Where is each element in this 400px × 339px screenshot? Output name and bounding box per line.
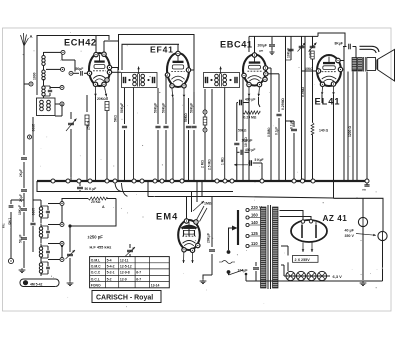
junction	[170, 179, 174, 183]
node 4	[50, 102, 64, 106]
svg-text:140: 140	[251, 220, 259, 225]
wire	[62, 54, 75, 71]
pin	[190, 248, 194, 252]
svg-text:110: 110	[251, 241, 258, 246]
svg-text:2000: 2000	[31, 124, 35, 132]
wire	[211, 89, 213, 181]
trimmer	[66, 248, 76, 281]
speaker	[367, 50, 395, 82]
pin	[264, 72, 268, 76]
capacitor 2KpF	[19, 190, 27, 205]
label 6.3V	[333, 274, 343, 279]
capacitor 20KpF	[203, 197, 215, 280]
svg-text:EM4: EM4	[156, 212, 179, 222]
svg-text:1000: 1000	[31, 208, 35, 216]
capacitor 10KpF	[234, 103, 252, 182]
trimmer	[126, 244, 136, 258]
svg-text:O.C.L: O.C.L	[91, 277, 100, 281]
resistor 20Kohm	[88, 197, 116, 204]
junction	[180, 179, 184, 183]
tube EL41	[317, 55, 341, 86]
coil L1	[42, 52, 45, 70]
svg-text:5-4-2: 5-4-2	[107, 265, 115, 269]
resistor 50Kohm	[184, 98, 191, 181]
wire diagonal	[197, 206, 208, 222]
contact 1	[48, 202, 64, 206]
pin	[94, 36, 98, 57]
svg-text:EL41: EL41	[315, 97, 341, 107]
svg-text:ECH42: ECH42	[64, 38, 97, 48]
wire	[352, 72, 354, 182]
lamp 4	[317, 271, 326, 280]
tap 110	[246, 241, 261, 247]
wire	[191, 70, 194, 92]
capacitor	[235, 77, 237, 83]
coil	[223, 74, 232, 86]
wire	[318, 33, 345, 47]
transformer primary	[261, 207, 267, 288]
coil S1	[39, 204, 50, 220]
svg-text:H.F 455 kHz: H.F 455 kHz	[90, 244, 112, 249]
svg-text:8KµF: 8KµF	[335, 42, 343, 46]
wire	[37, 36, 109, 96]
svg-text:2 MΩ: 2 MΩ	[201, 160, 205, 168]
svg-text:2.5 MΩ: 2.5 MΩ	[207, 159, 211, 170]
label EF41	[150, 45, 174, 55]
pin	[182, 248, 186, 252]
svg-text:10KµF: 10KµF	[18, 205, 22, 215]
svg-text:12-5-12: 12-5-12	[120, 265, 132, 269]
dial lamp unit	[20, 279, 59, 287]
node ant	[24, 72, 37, 86]
resistor 250ohm	[85, 95, 91, 181]
svg-text:4M 5-42: 4M 5-42	[30, 282, 43, 286]
variable capacitor	[66, 112, 77, 181]
label ECH42	[64, 38, 97, 48]
svg-text:2KµF: 2KµF	[19, 169, 23, 177]
svg-text:50KΩ: 50KΩ	[184, 113, 188, 122]
pin	[305, 67, 321, 73]
pin	[107, 70, 111, 74]
wire top rect	[119, 35, 195, 71]
junction	[77, 179, 81, 183]
capacitor 0.1uF	[286, 120, 298, 181]
capacitor 40uF 350V	[345, 229, 388, 241]
switch	[227, 270, 248, 281]
svg-text:6,3 V: 6,3 V	[333, 274, 343, 279]
pin	[263, 77, 267, 81]
wire	[61, 245, 63, 258]
wire bus3	[62, 199, 88, 207]
resistor 10Mohm	[244, 68, 271, 181]
wire	[55, 104, 62, 116]
diode chain	[201, 89, 212, 181]
pin	[107, 65, 111, 69]
svg-text:0.6MΩ: 0.6MΩ	[308, 48, 312, 58]
label 2x255	[293, 256, 319, 263]
ground	[19, 268, 26, 273]
fuse	[358, 198, 367, 227]
wire	[23, 205, 25, 207]
tube AZ41	[291, 220, 327, 242]
junction	[105, 179, 109, 183]
ground	[360, 281, 367, 286]
wire	[356, 72, 358, 182]
junction	[66, 179, 70, 183]
pin	[336, 58, 340, 62]
wire	[112, 68, 118, 93]
junction	[215, 179, 219, 183]
coil L2	[42, 70, 45, 80]
svg-text:20KΩ: 20KΩ	[97, 97, 106, 101]
tap 125	[246, 231, 261, 237]
contact 3	[48, 242, 64, 246]
svg-text:200µF: 200µF	[258, 44, 267, 48]
capacitor 0.1uF	[268, 74, 282, 181]
wire	[183, 98, 185, 182]
lamp 2	[296, 271, 305, 280]
tap 140	[246, 220, 261, 226]
wire top inner	[122, 44, 179, 70]
capacitor 8KpF	[335, 42, 357, 50]
svg-text:2 X 255V: 2 X 255V	[295, 258, 311, 262]
wire	[248, 97, 250, 182]
resistor 0.29Mohm	[281, 60, 285, 181]
label EL41	[315, 97, 341, 107]
capacitor 50KpF	[77, 183, 96, 192]
resistor 1Mohm	[220, 88, 224, 182]
svg-text:400 µF: 400 µF	[245, 148, 255, 152]
tube pins AZ41	[302, 243, 314, 253]
junction	[230, 179, 234, 183]
wire plate	[340, 47, 344, 61]
wire mains	[227, 228, 233, 254]
svg-text:0.1µF: 0.1µF	[290, 120, 294, 129]
wire joint	[122, 183, 128, 196]
mains squiggle	[219, 261, 235, 264]
junction	[311, 179, 315, 183]
pin	[196, 243, 200, 247]
wire	[61, 206, 63, 223]
pin	[247, 82, 251, 86]
pin	[105, 78, 109, 82]
svg-text:5 KµF: 5 KµF	[255, 158, 264, 162]
svg-text:40 µF: 40 µF	[345, 229, 355, 233]
lamp 1	[286, 271, 295, 280]
svg-text:12-9: 12-9	[120, 277, 127, 281]
wire	[285, 36, 287, 60]
capacitor 400pF	[237, 148, 256, 155]
svg-text:1000: 1000	[33, 72, 37, 80]
tube pins EF41	[171, 89, 185, 98]
wire	[95, 97, 97, 182]
coil S3	[39, 244, 50, 260]
label PU	[2, 223, 6, 228]
wire	[133, 88, 135, 182]
voltage selector	[232, 210, 238, 245]
contact 2	[48, 223, 64, 227]
wire	[363, 227, 383, 282]
coil L3	[42, 79, 52, 96]
capacitor	[362, 183, 370, 192]
junction	[260, 179, 264, 183]
tube EBC41	[243, 55, 266, 86]
capacitor	[124, 77, 131, 83]
svg-text:AZ 41: AZ 41	[323, 214, 348, 223]
svg-text:6-7: 6-7	[136, 277, 141, 281]
svg-text:12-9-8: 12-9-8	[120, 271, 130, 275]
svg-text:50KΩ: 50KΩ	[238, 129, 247, 133]
label HF	[90, 244, 112, 249]
wire	[172, 98, 174, 182]
svg-text:13-14: 13-14	[151, 283, 160, 287]
pin	[331, 82, 335, 86]
wire	[246, 280, 383, 282]
wire	[148, 181, 334, 219]
svg-text:125: 125	[251, 231, 259, 236]
node 2	[46, 67, 65, 71]
speaker leads	[360, 46, 380, 53]
tube pins EBC41	[248, 87, 260, 96]
label 1200ohm	[348, 126, 352, 137]
svg-text:0.5MΩ: 0.5MΩ	[301, 86, 305, 97]
svg-text:250 Ω: 250 Ω	[87, 120, 91, 130]
wire	[366, 72, 368, 182]
tube EM4	[178, 220, 200, 250]
transformer core	[268, 205, 271, 289]
resistor 140ohm	[311, 95, 329, 135]
coil S2	[39, 224, 50, 240]
capacitor 200pF	[258, 37, 276, 55]
trimmer capacitor	[298, 43, 306, 52]
svg-text:50KµF: 50KµF	[120, 103, 124, 113]
svg-text:gm: gm	[259, 49, 264, 53]
resistor 0.29Mohm	[243, 97, 260, 119]
node g1	[69, 71, 73, 75]
svg-text:400 µF: 400 µF	[245, 97, 255, 101]
capacitor 50pF	[73, 67, 88, 76]
svg-text:160: 160	[251, 213, 259, 218]
pin	[93, 82, 97, 86]
IF transformer 1	[122, 73, 158, 88]
ground bus	[37, 180, 367, 182]
svg-text:1 MΩ: 1 MΩ	[220, 157, 224, 165]
pin	[249, 36, 318, 57]
capacitor 400pF	[237, 97, 256, 105]
svg-text:oto: oto	[362, 188, 366, 192]
coil	[215, 74, 222, 87]
IF transformer 2	[204, 73, 240, 88]
junction	[223, 179, 227, 183]
wire	[104, 198, 116, 200]
svg-text:20KµF: 20KµF	[207, 233, 211, 243]
contact 4	[48, 258, 64, 262]
svg-text:5-4: 5-4	[107, 258, 112, 262]
pin	[165, 73, 169, 77]
svg-text:1 MΩ: 1 MΩ	[8, 218, 12, 226]
svg-text:FONO: FONO	[91, 283, 101, 287]
wire bus2	[37, 181, 233, 192]
title box CARISCH Royal	[92, 291, 161, 303]
svg-text:0.1µF: 0.1µF	[275, 127, 279, 135]
wire	[281, 246, 288, 271]
volume pot 1Mohm	[192, 181, 212, 212]
junction	[160, 179, 164, 183]
tube ECH42	[89, 53, 110, 86]
tap 160	[246, 213, 261, 219]
resistor 20Kohm	[97, 97, 109, 181]
junction	[140, 179, 144, 183]
wire B+	[334, 181, 384, 232]
pin	[320, 82, 324, 86]
svg-text:50KµF: 50KµF	[161, 103, 165, 113]
wire	[242, 78, 244, 182]
coil box	[37, 98, 56, 116]
wire	[343, 61, 345, 182]
capacitor 50KpF	[153, 88, 160, 181]
coil L4	[42, 96, 52, 116]
wire	[301, 36, 305, 181]
wire grid	[302, 36, 317, 181]
capacitor 5KpF	[234, 152, 264, 181]
junction	[292, 179, 296, 183]
ground	[200, 279, 207, 284]
wire loop	[68, 199, 116, 249]
capacitor 50uF	[19, 235, 27, 269]
capacitor	[206, 77, 213, 83]
pin	[176, 44, 180, 55]
arrow	[219, 67, 222, 75]
capacitor	[153, 77, 155, 83]
capacitor	[18, 205, 27, 236]
junction	[153, 179, 157, 183]
svg-text:50KµF: 50KµF	[189, 103, 193, 113]
svg-text:10 MΩ: 10 MΩ	[244, 137, 248, 147]
svg-text:0.29 MΩ: 0.29 MΩ	[244, 115, 257, 119]
wire	[281, 265, 330, 276]
wire	[112, 71, 121, 73]
svg-text:10KµF: 10KµF	[287, 48, 291, 58]
label AZ41	[323, 214, 348, 223]
pin	[102, 41, 119, 56]
antenna	[21, 33, 33, 92]
tube pins EL41	[321, 87, 335, 96]
pin	[184, 219, 188, 223]
label A	[102, 205, 105, 209]
tube pins EM4	[182, 252, 194, 263]
pin	[87, 71, 91, 75]
label EBC41	[220, 40, 253, 50]
pin	[182, 84, 186, 88]
svg-text:P.U.: P.U.	[2, 223, 6, 228]
svg-text:O.M.C: O.M.C	[91, 265, 101, 269]
svg-text:50µF: 50µF	[76, 67, 84, 71]
svg-text:50 K µF: 50 K µF	[85, 187, 97, 191]
wire	[30, 181, 35, 252]
svg-text:350 V: 350 V	[345, 234, 355, 238]
capacitor 104uF	[238, 262, 260, 281]
node 3	[50, 86, 64, 90]
coil	[133, 74, 140, 87]
pin	[102, 82, 106, 86]
capacitor 50KpF	[161, 75, 168, 181]
svg-text:O.C.C: O.C.C	[91, 271, 101, 275]
svg-text:1MΩ: 1MΩ	[204, 202, 212, 206]
svg-text:2KµF: 2KµF	[19, 194, 23, 202]
arrow	[137, 67, 140, 75]
junction	[113, 179, 117, 183]
svg-text:50 µF: 50 µF	[19, 235, 23, 244]
pin	[263, 66, 267, 70]
wire anode	[280, 211, 312, 221]
coil	[141, 74, 150, 86]
pin	[170, 84, 174, 88]
wire joint	[115, 183, 121, 192]
pin	[338, 67, 342, 71]
capacitor 50KpF	[120, 88, 127, 181]
output transformer	[352, 47, 365, 72]
pin	[242, 73, 246, 77]
svg-text:0.29MΩ: 0.29MΩ	[281, 98, 285, 110]
svg-text:5-2-1: 5-2-1	[107, 271, 115, 275]
pin	[194, 220, 198, 224]
label 250pF	[88, 235, 104, 240]
svg-text:5-2: 5-2	[107, 277, 112, 281]
capacitor 50KpF	[189, 92, 196, 181]
wire	[347, 72, 349, 182]
svg-text:6-7: 6-7	[136, 271, 141, 275]
svg-text:♯250 pF: ♯250 pF	[88, 235, 104, 240]
svg-text:A: A	[102, 205, 105, 209]
junction	[365, 179, 369, 183]
svg-text:0.5MΩ: 0.5MΩ	[267, 127, 271, 137]
wire	[28, 117, 35, 181]
phono wire	[8, 200, 24, 264]
junction	[51, 179, 55, 183]
coil S4	[39, 260, 50, 276]
tap 220 V	[246, 205, 262, 211]
pin	[186, 68, 190, 72]
pin	[257, 82, 261, 86]
svg-text:A: A	[30, 34, 33, 39]
svg-text:EF41: EF41	[150, 45, 174, 55]
connection table	[90, 257, 170, 288]
svg-text:50KµF: 50KµF	[153, 103, 157, 113]
label EM4	[156, 212, 179, 222]
ground	[67, 281, 74, 286]
transformer secondary	[273, 207, 279, 288]
tube pins ECH42	[94, 87, 107, 97]
scan speckle	[10, 32, 383, 307]
wire	[33, 200, 41, 262]
capacitor 5Kohm	[114, 92, 119, 181]
svg-text:O.M.L: O.M.L	[91, 258, 100, 262]
junction	[132, 179, 136, 183]
svg-text:140 Ω: 140 Ω	[319, 129, 329, 133]
svg-text:EBC41: EBC41	[220, 40, 253, 50]
svg-text:5KΩ: 5KΩ	[114, 115, 118, 122]
svg-text:12-11: 12-11	[120, 258, 129, 262]
node 1	[44, 50, 66, 54]
lamp 3	[307, 271, 316, 280]
tube EF41	[167, 53, 189, 87]
svg-text:10KΩ: 10KΩ	[305, 67, 314, 71]
junction	[301, 179, 305, 183]
capacitor 2KpF	[19, 92, 27, 188]
svg-text:20 KΩ: 20 KΩ	[91, 200, 101, 204]
capacitor 10KpF	[286, 36, 294, 60]
resistor 10Kohm	[308, 36, 316, 181]
